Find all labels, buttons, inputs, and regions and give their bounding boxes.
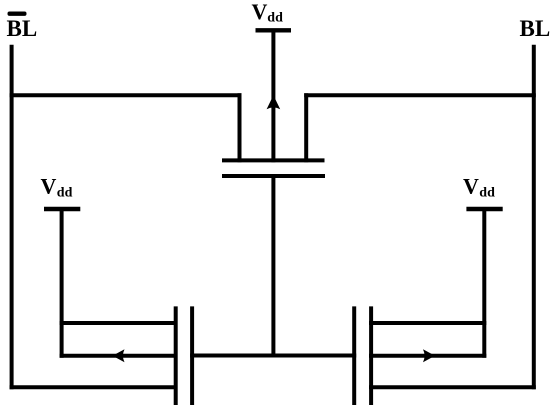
wire left rail bbox=[10, 93, 242, 97]
transistor M3 gate plate bbox=[352, 306, 356, 405]
power Vdd top label bbox=[252, 0, 284, 26]
power Vdd top bar bbox=[256, 28, 292, 32]
transistor M1 gate plate bbox=[222, 174, 325, 178]
svg-text:BL: BL bbox=[7, 16, 38, 41]
wire right rail bbox=[304, 93, 536, 97]
wire M1 gate stub bbox=[271, 176, 275, 358]
transistor M2 channel plate bbox=[174, 306, 178, 405]
arrow left on M2 source bbox=[113, 349, 125, 362]
wire BLbar vertical bbox=[10, 45, 14, 389]
svg-text:V: V bbox=[252, 0, 268, 24]
svg-text:dd: dd bbox=[57, 186, 73, 201]
wire right rail drop bbox=[304, 93, 308, 162]
svg-text:dd: dd bbox=[267, 11, 283, 26]
transistor M3 channel plate bbox=[369, 306, 373, 405]
power Vdd right bar bbox=[466, 207, 502, 211]
wire M2 drain bbox=[60, 321, 178, 325]
wire middle bottom bbox=[190, 354, 356, 358]
wire M2 source bbox=[60, 354, 178, 358]
wire M3 drain bbox=[369, 321, 486, 325]
power Vdd left label bbox=[41, 174, 73, 201]
arrow up at Vdd top stub bbox=[267, 95, 281, 109]
power Vdd right label bbox=[463, 174, 495, 201]
wire left rail drop bbox=[238, 93, 242, 162]
wire bottom rail left bbox=[10, 385, 178, 389]
svg-text:V: V bbox=[463, 174, 479, 199]
svg-text:BL: BL bbox=[520, 16, 550, 41]
wire bottom rail right bbox=[369, 385, 536, 389]
transistor M1 channel plate bbox=[222, 158, 325, 162]
transistor M2 gate plate bbox=[190, 306, 194, 405]
wire Vdd left stub bbox=[60, 209, 64, 358]
power Vdd left bar bbox=[44, 207, 80, 211]
wire Vdd right stub bbox=[482, 209, 486, 358]
node BLbar label bbox=[7, 12, 38, 41]
svg-text:V: V bbox=[41, 174, 57, 199]
wire Vdd top stub bbox=[271, 30, 275, 162]
arrow right on M3 source bbox=[423, 349, 435, 362]
wire M3 source bbox=[369, 354, 486, 358]
wire BL vertical bbox=[532, 45, 536, 390]
svg-text:dd: dd bbox=[479, 186, 495, 201]
